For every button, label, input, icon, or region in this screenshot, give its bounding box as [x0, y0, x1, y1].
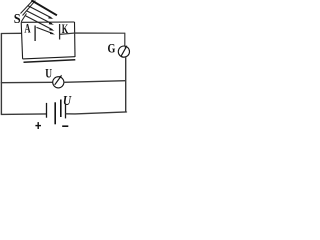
wire bottom-right vertical corner: [125, 112, 127, 113]
svg-text:U: U: [45, 66, 52, 81]
wire top-left horizontal: [1, 32, 22, 34]
light beam ray 3 with arrow: [27, 11, 53, 24]
battery plate 2 long: [54, 102, 56, 124]
light beam ray 5 with arrow: [37, 27, 54, 33]
galvanometer needle: [121, 48, 126, 56]
light beam top ray thick: [31, 0, 57, 15]
wire bottom-left to battery: [1, 113, 47, 116]
svg-text:G: G: [108, 40, 116, 55]
wire battery to bottom-right: [66, 112, 127, 114]
phototube box: [21, 22, 75, 59]
battery plate 3: [60, 100, 62, 118]
light beam left cap: [21, 14, 26, 22]
svg-text:A: A: [24, 20, 31, 35]
light beam upper edge 1: [21, 0, 34, 14]
svg-text:S: S: [14, 12, 21, 27]
galvanometer circle: [118, 46, 129, 57]
label minus: [62, 125, 68, 127]
wire left vertical: [0, 34, 2, 115]
wire middle-left to voltmeter: [1, 81, 53, 83]
wire voltmeter to right: [64, 81, 126, 83]
battery plate 4 long: [65, 105, 67, 119]
label plus: [35, 122, 41, 129]
light beam ray 4 with arrow: [26, 16, 53, 30]
light beam ray 2 with arrow: [28, 6, 52, 18]
voltmeter circle: [53, 77, 64, 88]
svg-text:U: U: [63, 93, 72, 108]
voltmeter needle: [55, 77, 61, 85]
phototube bottom double-stroke: [24, 60, 76, 62]
battery plate 1: [46, 103, 48, 118]
electrode K plate: [59, 24, 61, 40]
wire down to galvanometer: [124, 33, 126, 47]
electrode A plate: [34, 26, 36, 42]
light beam upper edge 2: [23, 1, 36, 16]
wire K to right: [60, 33, 125, 34]
wire below galvanometer: [125, 57, 127, 112]
